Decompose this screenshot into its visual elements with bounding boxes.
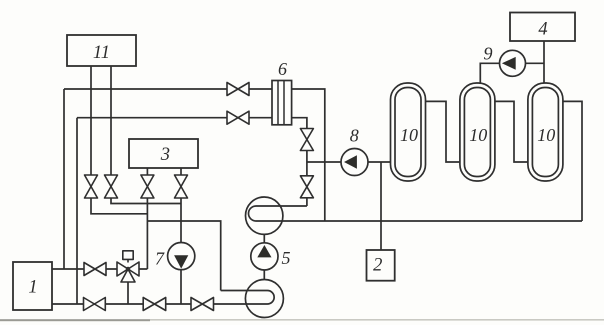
pump 7 (circle, triangle down)	[168, 243, 195, 270]
wire: header h3 (y=221 to downpipe x=220.7 to lower exchanger coil)	[147, 221, 220, 291]
svg-text:11: 11	[93, 43, 110, 63]
box 11	[67, 35, 136, 66]
wire: valve to upper coil corner	[306, 198, 308, 206]
valve A (vertical, below box11 left drop)	[85, 175, 98, 198]
wire: main supply line 2 (y=117.7)	[77, 117, 272, 119]
valve D (vertical, below box3 right)	[175, 175, 188, 198]
wire: pump9 suction from column2 top	[480, 63, 499, 83]
wire: box11 drop right (x=111)	[110, 66, 112, 175]
svg-text:2: 2	[373, 256, 382, 276]
wire: pump7 outlet down to bottom pipe	[180, 270, 182, 304]
svg-text:6: 6	[278, 59, 287, 79]
svg-text:4: 4	[538, 20, 547, 40]
wire: box4 drop to column3 top (x=544)	[543, 41, 545, 83]
wire: upper exchanger coil U + return line (y=221)	[249, 206, 583, 221]
wire: valve B outlet + header h1 (y=203.5)	[111, 198, 181, 204]
column 10 #3	[528, 83, 563, 181]
svg-text:9: 9	[484, 44, 493, 64]
wire: valve C downcomer (x=147.4 to tank1 top pipe)	[146, 198, 148, 269]
wire: exchanger6 bottom-right run and drop (x=306.9)	[292, 118, 307, 129]
wire: three-way valve bottom branch (x=128)	[127, 276, 129, 304]
box 4	[510, 13, 575, 42]
wire: valve D downcomer to pump7 (x=181)	[180, 198, 182, 243]
three-way control valve with actuator	[117, 251, 139, 282]
pump 5 (circle, triangle up)	[251, 243, 278, 270]
wire: upper exchanger to pump5 stub	[263, 234, 265, 243]
wire: valve A outlet + header h2 (y=213.8)	[91, 198, 147, 214]
valve V4 on bottom pipe	[84, 298, 106, 311]
wire: column1-column2 connector	[426, 101, 460, 162]
wire: pump8 supply line (y=162)	[307, 161, 391, 163]
svg-text:10: 10	[469, 125, 487, 145]
valve B (vertical, below box11 right drop)	[105, 175, 118, 198]
svg-text:7: 7	[155, 248, 165, 268]
svg-text:8: 8	[350, 126, 359, 146]
box 2 (sensor)	[367, 250, 395, 281]
wire: box3 stub left (x=147.4)	[146, 168, 148, 175]
wire: tank1 top pipe (y=269)	[52, 268, 147, 270]
valve V5 on bottom pipe	[143, 298, 166, 311]
heat exchanger 6 (plate stack)	[272, 81, 292, 125]
wire: main supply line 1 (y=89)	[64, 88, 272, 90]
box 1 (tank)	[13, 262, 52, 310]
column 10 #2	[460, 83, 495, 181]
wire: column2-column3 connector	[495, 101, 528, 162]
lower heat exchanger (circle with U coil)	[245, 280, 283, 318]
valve V2 on main line 2	[227, 111, 249, 124]
wire: left riser 1 (x=64 from line1 down to tank1 top pipe)	[63, 89, 65, 269]
valve V6 on bottom pipe	[191, 298, 214, 311]
wire: between valves on x=306.9	[306, 151, 308, 176]
pump 8 (circle, triangle left)	[341, 149, 368, 176]
wire: box3 stub right (x=181)	[180, 168, 182, 175]
valve V3 on tank1 top pipe	[84, 263, 106, 276]
upper heat exchanger (circle with U coil)	[246, 197, 283, 234]
wire: pump9 discharge to box4 line	[525, 62, 544, 64]
scan artifact line at bottom	[0, 319, 604, 321]
wire: tank1 bottom pipe + lower exchanger coil U	[52, 291, 274, 305]
svg-text:10: 10	[537, 125, 555, 145]
svg-text:3: 3	[160, 145, 170, 165]
valve E (vertical, x=306.9 upper)	[300, 129, 313, 151]
svg-text:1: 1	[28, 277, 37, 297]
wire: pump5 to lower exchanger stub	[263, 270, 265, 280]
valve V1 on main line 1	[227, 83, 249, 96]
wire: left riser 2 (x=77 from line2 down to tank1 bottom pipe)	[76, 118, 78, 304]
wire: box11 drop left (x=91)	[90, 66, 92, 175]
valve F (vertical, x=306.9 lower)	[300, 176, 313, 198]
svg-text:10: 10	[400, 125, 418, 145]
wire: sensor2 drop (x=381)	[380, 162, 382, 250]
svg-text:5: 5	[282, 248, 291, 268]
valve C (vertical, below box3 left)	[141, 175, 154, 198]
wire: column3 outlet riser to return (x=582)	[563, 101, 582, 221]
column 10 #1	[391, 83, 426, 181]
box 3	[129, 139, 198, 168]
wire: exchanger6 top-right run and right drop (x=324.8)	[292, 89, 325, 221]
pump 9 (circle, triangle left)	[500, 50, 526, 76]
